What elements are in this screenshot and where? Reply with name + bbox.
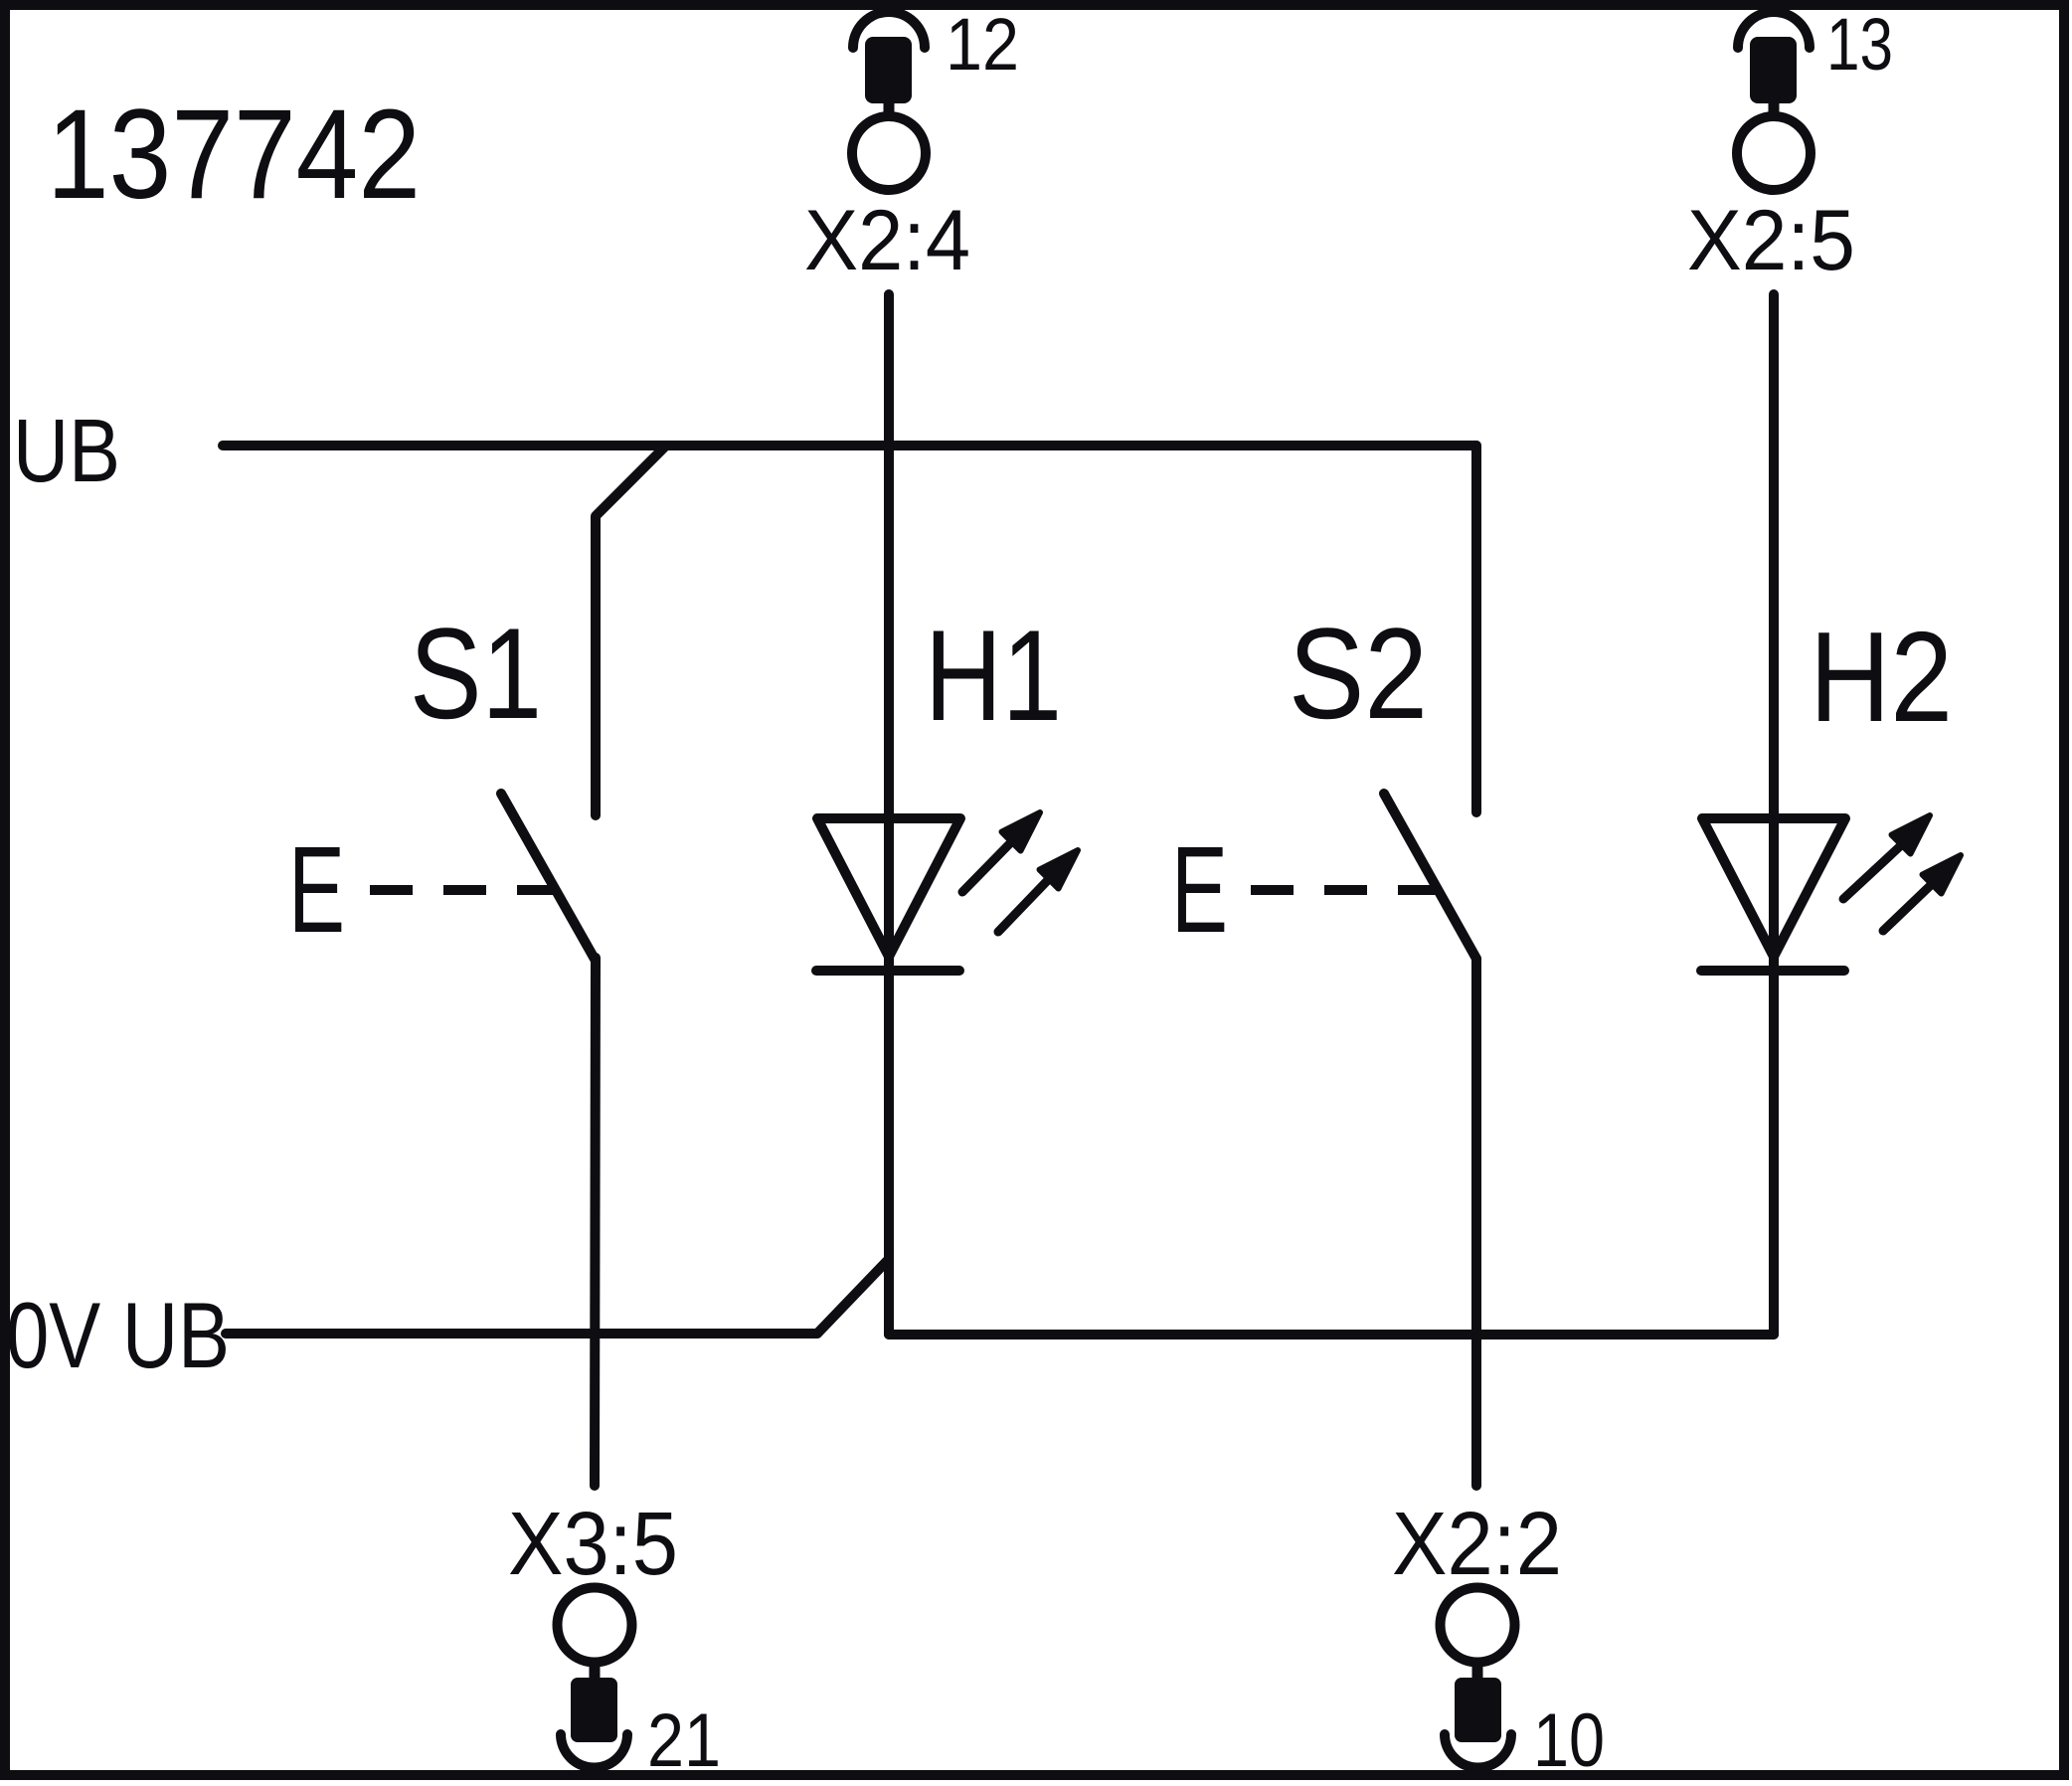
dashed actuation line S2	[1251, 885, 1437, 895]
svg-text:10: 10	[1533, 1698, 1605, 1783]
wire S2 to X2:2	[1471, 959, 1481, 1486]
wire S1 to X3:5	[595, 958, 596, 1486]
svg-text:137742: 137742	[47, 84, 421, 226]
terminal X2:4	[852, 12, 926, 190]
svg-text:X2:4: X2:4	[804, 193, 970, 288]
LED H1	[816, 812, 1078, 971]
terminal X2:5	[1737, 12, 1811, 190]
LED H2	[1701, 815, 1961, 971]
dashed actuation line S1	[370, 885, 555, 895]
svg-text:X2:2: X2:2	[1392, 1495, 1562, 1594]
terminal X2:2	[1441, 1588, 1515, 1768]
svg-text:21: 21	[647, 1698, 721, 1783]
svg-text:E: E	[288, 822, 345, 959]
wire X2:5 to 0V rail (H2 branch)	[1769, 294, 1779, 1335]
svg-text:0V UB: 0V UB	[6, 1283, 230, 1387]
wire 0V rail right	[889, 1330, 1774, 1339]
wire UB rail	[223, 441, 1476, 450]
svg-text:S2: S2	[1289, 601, 1428, 746]
wire UB jog to S1	[596, 446, 666, 815]
svg-text:S1: S1	[410, 601, 542, 746]
svg-text:X2:5: X2:5	[1687, 193, 1855, 288]
wire X2:4 to 0V rail (H1 branch)	[884, 294, 894, 1335]
svg-text:X3:5: X3:5	[508, 1495, 678, 1594]
svg-text:E: E	[1171, 822, 1228, 959]
svg-text:12: 12	[946, 3, 1019, 86]
terminal X3:5	[558, 1588, 632, 1768]
wire 0V jog at H1	[817, 1259, 889, 1334]
switch S2 blade	[1384, 794, 1476, 959]
wire 0V rail left	[226, 1329, 817, 1339]
svg-text:13: 13	[1826, 3, 1893, 86]
wire UB to S2	[1471, 446, 1481, 812]
svg-text:H1: H1	[925, 603, 1062, 748]
switch S1 blade	[501, 794, 596, 961]
svg-text:H2: H2	[1810, 606, 1953, 749]
svg-text:UB: UB	[13, 402, 120, 501]
